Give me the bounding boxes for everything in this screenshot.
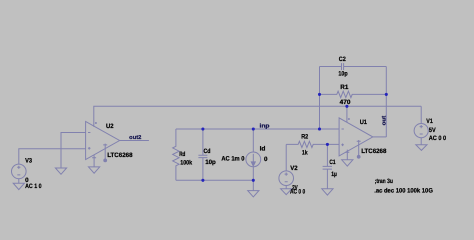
svg-text:U2: U2 <box>106 123 114 130</box>
svg-text:V2: V2 <box>290 165 298 172</box>
op-amp U2 V- pin wire to ground <box>92 155 96 167</box>
svg-text:R2: R2 <box>301 134 308 141</box>
capacitor C2 <box>320 63 387 70</box>
svg-text:;tran 3u: ;tran 3u <box>375 178 393 185</box>
wire V2 riser <box>285 144 287 171</box>
svg-text:470: 470 <box>340 99 351 106</box>
capacitor C1 <box>323 144 332 188</box>
svg-text:LTC6268: LTC6268 <box>107 152 133 159</box>
svg-text:out: out <box>381 116 387 126</box>
op-amp U2 shdn pin <box>103 144 107 160</box>
op-amp U1 input polarity marks <box>341 129 344 146</box>
op-amp U1 V+ mark <box>348 118 350 120</box>
svg-text:AC 1 0: AC 1 0 <box>25 183 42 190</box>
svg-text:V3: V3 <box>25 158 32 165</box>
wire U1 V+ riser <box>346 106 348 122</box>
svg-text:R1: R1 <box>340 84 349 91</box>
svg-text:LTC6268: LTC6268 <box>361 148 387 155</box>
svg-text:10p: 10p <box>338 71 347 78</box>
wire V3 to U2 non-inverting input <box>19 149 86 165</box>
svg-text:out2: out2 <box>129 135 141 141</box>
svg-text:Cd: Cd <box>204 148 211 155</box>
svg-text:C2: C2 <box>339 56 346 63</box>
wire U1 output <box>373 136 387 138</box>
wire feedback left vertical <box>319 67 321 130</box>
svg-text:AC 0 0: AC 0 0 <box>429 135 447 142</box>
wire photodiode bottom rail <box>176 179 253 181</box>
svg-text:0: 0 <box>264 156 268 163</box>
svg-text:C1: C1 <box>329 159 336 166</box>
voltage source V1 <box>414 124 428 138</box>
svg-text:Id: Id <box>260 145 266 152</box>
svg-text:AC 1m 0: AC 1m 0 <box>221 155 245 162</box>
op-amp U2 triangle <box>86 122 120 160</box>
svg-text:100k: 100k <box>180 160 192 167</box>
ground flag at U2 inverting input <box>55 168 66 174</box>
svg-text:U1: U1 <box>360 119 368 126</box>
svg-text:.ac dec 100 100k 10G: .ac dec 100 100k 10G <box>374 187 433 194</box>
voltage source V2 <box>279 171 294 186</box>
wire V+ rail <box>94 106 421 127</box>
ground under U1 V- <box>342 160 353 166</box>
wire V3 minus to ground <box>18 179 20 184</box>
ground under V2 <box>281 189 292 195</box>
svg-text:inp: inp <box>260 122 271 129</box>
wire inp net <box>176 128 339 130</box>
voltage source V3 <box>11 164 26 179</box>
wire feedback right vertical <box>385 67 387 138</box>
wire V1 riser <box>420 106 422 123</box>
op-amp U1 triangle <box>339 118 373 156</box>
svg-text:1k: 1k <box>302 149 308 156</box>
junction dots <box>201 93 388 182</box>
ground under C1 <box>322 189 333 195</box>
wire out2 <box>120 140 149 142</box>
ground under V1 <box>416 145 427 151</box>
wire U2 inverting input to ground drop <box>61 133 86 169</box>
resistor R2 <box>286 141 339 147</box>
svg-text:AC 0 0: AC 0 0 <box>290 189 306 196</box>
svg-text:V1: V1 <box>426 118 433 125</box>
op-amp U1 V- pin wire to ground <box>345 150 349 160</box>
ground under Id <box>248 191 259 197</box>
ground under U2 V- <box>89 167 100 173</box>
svg-text:5V: 5V <box>429 127 437 134</box>
op-amp U2 V+ mark <box>95 122 97 124</box>
net label inp anchor tick <box>265 128 267 129</box>
ground under V3 <box>13 183 24 189</box>
op-amp U2 input polarity marks <box>88 133 91 150</box>
current source Id <box>252 129 254 152</box>
resistor Rd <box>173 129 179 180</box>
op-amp U1 shdn pin <box>357 140 361 156</box>
svg-text:10p: 10p <box>205 159 216 166</box>
capacitor Cd <box>198 129 207 180</box>
svg-text:1µ: 1µ <box>331 171 337 178</box>
svg-text:Rd: Rd <box>179 151 185 158</box>
resistor R1 <box>320 91 387 97</box>
